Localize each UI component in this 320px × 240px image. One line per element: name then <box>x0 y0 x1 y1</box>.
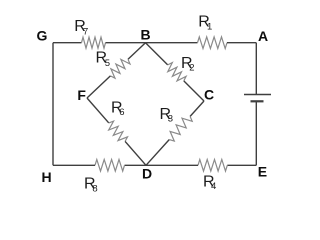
wire R2 to C <box>184 81 204 101</box>
resistor R1 <box>198 37 228 49</box>
wire B to R2 <box>146 43 168 65</box>
svg-text:8: 8 <box>92 184 97 195</box>
svg-text:E: E <box>258 163 267 179</box>
svg-text:D: D <box>142 166 152 182</box>
svg-text:5: 5 <box>105 58 110 69</box>
wire C to R3 <box>190 101 204 116</box>
wire E to R4 <box>227 164 256 166</box>
battery short plate (-) <box>251 100 264 102</box>
svg-text:B: B <box>141 26 151 42</box>
battery long plate (+) <box>244 94 271 96</box>
resistor R7 <box>82 37 106 48</box>
wire R4 to D <box>146 164 198 166</box>
svg-text:6: 6 <box>119 107 124 118</box>
wire R3 to D <box>146 140 169 166</box>
wire A to battery positive <box>255 43 257 95</box>
wire F to R6 <box>87 98 109 123</box>
wire D to R8 <box>125 164 147 166</box>
wire H to G (left side) <box>52 43 54 166</box>
wire R7 to B <box>106 42 146 44</box>
svg-text:4: 4 <box>211 181 216 192</box>
resistor R2 <box>168 63 186 81</box>
resistor R4 <box>198 160 227 172</box>
wire B to R1 <box>146 42 198 44</box>
svg-text:7: 7 <box>83 26 88 37</box>
svg-text:1: 1 <box>207 22 212 33</box>
wire R6 to D <box>125 141 146 165</box>
svg-text:3: 3 <box>168 114 173 125</box>
svg-text:F: F <box>77 87 86 103</box>
resistor R8 <box>95 160 125 172</box>
svg-text:A: A <box>258 28 268 44</box>
wire G to R7 <box>53 42 82 44</box>
svg-text:2: 2 <box>189 63 194 74</box>
wire R5 to F <box>87 76 110 98</box>
wire R1 to A <box>227 42 256 44</box>
svg-text:H: H <box>41 169 51 185</box>
wire B to R5 <box>128 43 146 60</box>
resistor R3 <box>169 116 192 141</box>
wire R8 to H <box>53 164 95 166</box>
svg-text:G: G <box>37 27 48 43</box>
wire battery negative to E <box>255 101 257 165</box>
resistor R6 <box>109 121 128 141</box>
resistor R5 <box>110 59 130 78</box>
svg-text:C: C <box>204 86 214 102</box>
